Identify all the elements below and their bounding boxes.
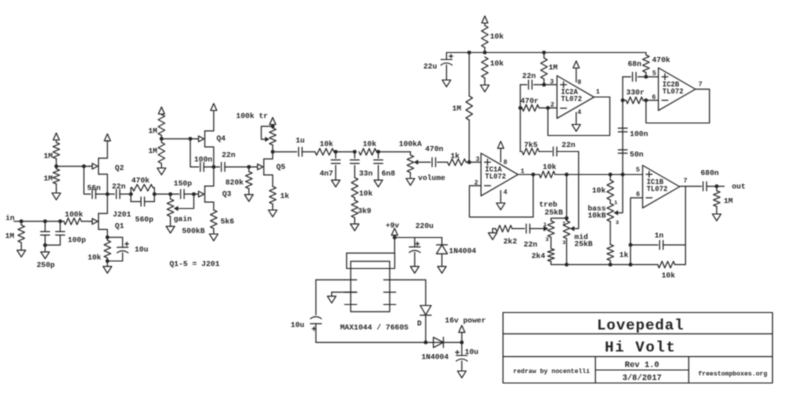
wiper arrow trimpot (265, 137, 270, 142)
label +9v (386, 222, 400, 230)
svg-text:10k: 10k (359, 190, 373, 198)
label 1u (296, 138, 306, 146)
wire IC1A feedback (469, 175, 533, 218)
label out (732, 183, 746, 191)
label Q2 (115, 165, 125, 173)
resistor 470k (parallel) (131, 184, 155, 201)
svg-text:100n: 100n (194, 156, 213, 164)
label 100k (65, 211, 84, 219)
label 100n (Q4) (194, 156, 213, 164)
label gain (174, 216, 193, 224)
label 100n (630, 131, 649, 139)
ground IC1A pin4 (496, 191, 505, 210)
label 22u (423, 64, 437, 72)
label mid (574, 234, 588, 242)
wire IC2A feedback loop (548, 97, 610, 136)
ground (Q4 divider) (157, 166, 166, 175)
svg-text:1N4004: 1N4004 (421, 354, 449, 362)
node Q4 gate (160, 137, 164, 141)
junction 330r left (621, 98, 625, 102)
capacitor 68n (623, 72, 646, 81)
svg-text:TL072: TL072 (662, 88, 683, 96)
supply arrow (Q4 drain) (211, 104, 217, 111)
ground IC2A pin4 (572, 113, 581, 132)
svg-text:470k: 470k (131, 177, 150, 185)
junction feedback bottom (629, 263, 633, 267)
supply arrow +9v (392, 228, 398, 237)
svg-text:10k: 10k (592, 188, 606, 196)
svg-text:5: 5 (652, 70, 656, 77)
trimpot 100k (269, 126, 276, 152)
svg-text:10k: 10k (88, 254, 102, 262)
capacitor 100p (45, 221, 65, 245)
ground (10k divider) (481, 78, 490, 92)
label 470k (IC2B) (652, 57, 671, 65)
supply arrow (Q4 bias divider) (158, 107, 164, 115)
node Q2 source / line (106, 192, 110, 196)
svg-text:10u: 10u (465, 349, 479, 357)
pin tick right 3 (384, 291, 396, 293)
svg-text:Q1: Q1 (115, 223, 125, 231)
resistor 1M (Q2 bias lower) (53, 166, 60, 190)
svg-text:22n: 22n (222, 152, 236, 160)
junction rail/1M IC2A (542, 51, 546, 55)
svg-text:Rev 1.0: Rev 1.0 (625, 361, 659, 370)
resistor 100k (input) (64, 218, 90, 225)
wire to mid pot wiper (574, 152, 579, 229)
svg-text:680n: 680n (701, 170, 720, 178)
pin number 8 (IC2A) (577, 79, 581, 86)
svg-text:7k5: 7k5 (524, 142, 538, 150)
supply arrow IC2A pin8 (573, 61, 579, 82)
svg-text:500kB: 500kB (182, 228, 205, 236)
label 3k9 (358, 208, 372, 216)
wire +9v rail (395, 237, 442, 239)
capacitor 22n (Q2 out) (107, 190, 130, 199)
svg-text:820k: 820k (225, 179, 244, 187)
ground (gain pot) (166, 222, 175, 233)
label 1N4004 (shunt) (449, 248, 477, 256)
svg-text:250p: 250p (37, 262, 56, 270)
svg-text:3/8/2017: 3/8/2017 (622, 373, 661, 383)
pin tick left 2 (345, 279, 357, 281)
node Q5 gate (247, 165, 251, 169)
ground (1N4004 shunt) (438, 262, 447, 273)
svg-text:3: 3 (476, 156, 480, 163)
svg-text:10kB: 10kB (588, 213, 607, 221)
potentiometer treb 25kB (548, 221, 555, 249)
op-amp IC1B (643, 165, 680, 208)
svg-text:1M: 1M (452, 106, 462, 114)
node Q1 source (106, 235, 110, 239)
resistor 2k4 (548, 249, 555, 265)
capacitor 1n (IC1B feedback) (631, 240, 686, 249)
junction feedback tap (531, 173, 535, 177)
pin number 2 (IC1A) (474, 179, 478, 186)
svg-text:redraw by nocentelli: redraw by nocentelli (513, 368, 590, 375)
junction 250p/100p bottom (43, 243, 47, 247)
junction 470r branch (518, 106, 522, 110)
op-amp IC2B (658, 68, 695, 111)
junction 1n tap (629, 243, 633, 247)
resistor 1k (bass lower) (607, 245, 614, 265)
svg-text:2k2: 2k2 (503, 238, 517, 246)
svg-text:25kB: 25kB (574, 241, 593, 249)
node IC2A +in (542, 83, 546, 87)
resistor 1k (IC1A input) (437, 159, 481, 166)
svg-text:100k tr: 100k tr (236, 113, 268, 121)
label 1k (IC1A input) (450, 153, 460, 161)
label 2k4 (531, 253, 545, 261)
wire Q1 drain to Q2 source (106, 194, 108, 213)
svg-text:TL072: TL072 (647, 186, 668, 194)
svg-text:22n: 22n (522, 73, 536, 81)
svg-text:MAX1044 / 7660S: MAX1044 / 7660S (340, 325, 409, 333)
label 10k (IC1B feedback) (661, 272, 675, 280)
svg-text:3: 3 (545, 236, 549, 243)
supply arrow 16v (459, 325, 465, 342)
resistor 10k (rail to ground) (482, 57, 489, 78)
pin tick right 4 (384, 304, 396, 306)
wire +9v to charge pump (394, 238, 396, 254)
node IC1A +in (467, 160, 471, 164)
label 10u (charge pump) (291, 322, 305, 330)
label treb (539, 201, 558, 209)
resistor 3k9 (351, 198, 358, 220)
svg-text:Lovepedal: Lovepedal (597, 317, 684, 334)
label 100kA (399, 141, 422, 149)
label 10u (Q1) (135, 247, 149, 255)
ground (output 1M) (712, 207, 721, 221)
label 5k6 (221, 218, 235, 226)
resistor 330r (623, 97, 659, 104)
svg-text:560p: 560p (135, 216, 154, 224)
label 1N4004 (series) (421, 354, 449, 362)
title block frame (503, 313, 773, 384)
svg-text:3k9: 3k9 (358, 208, 372, 216)
svg-text:100n: 100n (630, 131, 649, 139)
terminal 3 (bass) (616, 219, 620, 226)
label 10k (Q1 source) (88, 254, 102, 262)
pin number 3 (IC2A) (550, 79, 554, 86)
wire IC1B pin6 (631, 198, 643, 265)
svg-text:treb: treb (539, 201, 558, 209)
resistor 1M (Q4 bias lower) (158, 139, 165, 166)
svg-text:1M: 1M (724, 198, 734, 206)
label 1M (IC1A bias) (452, 106, 462, 114)
wire negative rail (316, 341, 462, 343)
label 33n (359, 170, 373, 178)
wiper arrow bass (614, 210, 619, 215)
label redraw by nocentelli (513, 368, 590, 375)
wire input (14, 220, 64, 222)
wire IC2B output feedback (646, 89, 710, 123)
junction trimpot top (271, 124, 275, 128)
capacitor 220u (electrolytic) (409, 238, 420, 263)
svg-text:22n: 22n (524, 241, 538, 249)
pin number 4 (IC1A) (503, 189, 507, 196)
ground (Q2 divider) (52, 190, 61, 200)
label MAX1044 / 7660S (340, 325, 409, 333)
junction 10k/10u bottom (106, 259, 110, 263)
svg-text:in: in (5, 215, 15, 223)
capacitor 56n (84, 166, 108, 198)
resistor 820k (246, 167, 253, 191)
wiper arrow volume (414, 160, 419, 165)
ground (3k9) (350, 220, 359, 231)
capacitor 100n (vertical net) (618, 128, 627, 132)
ground (820k) (245, 191, 254, 201)
label 10u (16v) (465, 349, 479, 357)
ground (charge pump IC) (327, 292, 336, 303)
wire treb top branch (551, 218, 567, 221)
svg-text:22n: 22n (112, 184, 126, 192)
ground (input 1M) (17, 246, 26, 257)
ground (Q1 source) (103, 261, 112, 273)
pin number 5 (IC2B) (652, 70, 656, 77)
svg-text:50n: 50n (630, 152, 644, 160)
capacitor 6n8 (374, 152, 383, 180)
wire trimpot wiper (261, 126, 272, 139)
wire tone stack bottom (551, 264, 631, 266)
svg-text:100kA: 100kA (399, 141, 422, 149)
IC MAX1044 body (351, 261, 390, 311)
junction bass tap (608, 173, 612, 177)
supply arrow (Q2 bias divider) (53, 133, 59, 143)
resistor 10k (top, to supply) (482, 26, 489, 53)
label 25kB (treb) (545, 209, 564, 217)
svg-text:6: 6 (636, 191, 640, 198)
wire gain wiper (178, 194, 194, 208)
supply arrow +V top (482, 16, 488, 26)
capacitor 1u (273, 147, 315, 156)
label D (417, 320, 422, 328)
svg-text:D: D (417, 320, 422, 328)
junction 4n7 (334, 150, 338, 154)
IC MAX1044 lid (347, 253, 395, 268)
svg-text:volume: volume (418, 175, 446, 183)
wire IC2A output (594, 96, 610, 98)
label Q1-5 = J201 (170, 261, 221, 269)
diode D (420, 306, 431, 343)
wire IC1B output (680, 185, 702, 187)
terminal 1 (bass) (614, 199, 618, 206)
label 1M (Q4 upper) (148, 128, 158, 136)
potentiometer bass 10kB (607, 204, 614, 245)
resistor 2k2 (493, 225, 525, 232)
supply arrow IC1A pin8 (498, 141, 504, 162)
svg-text:7: 7 (698, 81, 702, 88)
svg-text:10u: 10u (291, 322, 305, 330)
resistor 10k (filter 2) (359, 149, 410, 156)
svg-text:25kB: 25kB (545, 209, 564, 217)
pin number 5 (IC1B) (636, 166, 640, 173)
label 2k2 (503, 238, 517, 246)
capacitor 100n (190, 139, 213, 172)
transistor Q1 J201 (90, 213, 108, 237)
capacitor 10u (16v filter, electrolytic) (456, 342, 468, 367)
resistor 470k (IC2B feedback upper) (643, 53, 650, 77)
svg-text:Q4: Q4 (217, 136, 227, 144)
label 10k (lower) (490, 61, 504, 69)
svg-text:22n: 22n (562, 142, 576, 150)
transistor Q3 J201 (194, 167, 214, 210)
svg-text:470n: 470n (425, 146, 444, 154)
resistor 1M (volume to rail) (466, 53, 473, 163)
supply arrow (trimpot) (270, 118, 276, 127)
label 500kB (182, 228, 205, 236)
label 22n (7k5 series) (562, 142, 576, 150)
ground (6n8) (374, 180, 383, 187)
wire bass wiper to node (618, 175, 623, 213)
label 470n (425, 146, 444, 154)
node IC2B +in (644, 75, 648, 79)
svg-text:22u: 22u (423, 64, 437, 72)
svg-text:3: 3 (616, 219, 620, 226)
svg-text:1N4004: 1N4004 (449, 248, 477, 256)
wiper arrow gain (174, 206, 179, 211)
transistor Q2 J201 (90, 141, 108, 195)
pin number 6 (IC2B) (652, 94, 656, 101)
label J201 (Q1) (113, 212, 132, 220)
label bass (588, 206, 607, 214)
junction 470k/560p right (153, 192, 157, 196)
svg-text:Q2: Q2 (115, 165, 125, 173)
label 56n (87, 185, 101, 193)
ground (Q5 source) (268, 206, 277, 217)
resistor 10k (bass upper) (607, 175, 614, 204)
pin number 4 (IC2A) (577, 109, 581, 116)
label 10k (filter 2) (363, 141, 377, 149)
label volume (418, 175, 446, 183)
junction rail/10k (483, 51, 487, 55)
svg-text:16v power: 16v power (445, 318, 486, 326)
resistor 10k (Q1 source) (104, 237, 111, 261)
label 7k5 (524, 142, 538, 150)
label Rev 1.0 (625, 361, 659, 370)
label Q1 (115, 223, 125, 231)
wire chip ground (332, 291, 357, 293)
node gain top (169, 192, 173, 196)
resistor 470r (520, 105, 557, 112)
label 1M (Q4 lower) (148, 148, 158, 156)
svg-text:4: 4 (577, 109, 581, 116)
svg-text:33n: 33n (359, 170, 373, 178)
potentiometer gain 500kB (167, 194, 174, 222)
terminal 1 (mid) (562, 220, 566, 227)
pin tick left 3 (345, 291, 357, 293)
svg-text:1M: 1M (44, 153, 54, 161)
label 10kB (bass) (588, 213, 607, 221)
capacitor 22n (IC2A +in) (520, 80, 544, 89)
svg-text:100k: 100k (65, 211, 84, 219)
label 680n (701, 170, 720, 178)
label 22n (treb input) (524, 241, 538, 249)
capacitor 560p (parallel) (131, 197, 155, 206)
wire to gain node (154, 193, 179, 195)
resistor 1M (Q2 bias upper) (53, 143, 60, 167)
svg-text:1k: 1k (450, 153, 460, 161)
svg-text:1k: 1k (280, 193, 290, 201)
ground (16v filter) (458, 367, 467, 378)
svg-text:1M: 1M (5, 233, 15, 241)
capacitor 250p (41, 221, 50, 245)
potentiometer volume 100kA (407, 152, 414, 175)
resistor 1M (Q4 bias upper) (158, 115, 165, 139)
junction output (715, 184, 719, 188)
svg-text:6n8: 6n8 (382, 170, 396, 178)
svg-text:TL072: TL072 (561, 96, 582, 104)
wire charge pump cap loop (316, 279, 345, 281)
label 1M (output) (724, 198, 734, 206)
ground (22u) (442, 77, 451, 87)
resistor 7k5 (520, 148, 552, 155)
svg-text:1: 1 (521, 168, 525, 175)
svg-text:10k: 10k (320, 141, 334, 149)
capacitor 50n (vertical net) (618, 150, 627, 153)
supply arrow (Q2 drain) (104, 134, 110, 141)
pin number 7 (IC1B) (683, 177, 687, 184)
label 16v power (445, 318, 486, 326)
junction in/1M (19, 219, 23, 223)
label 820k (225, 179, 244, 187)
label in (5, 215, 15, 223)
diode 1N4004 (series boost) (433, 337, 443, 347)
svg-text:Q5: Q5 (276, 164, 286, 172)
svg-text:5: 5 (636, 166, 640, 173)
capacitor 22n (7k5 series) (553, 147, 578, 156)
wire Q2 gate (56, 165, 89, 167)
label 250p (37, 262, 56, 270)
terminal 3 (treb) (545, 236, 549, 243)
label 25kB (mid) (574, 241, 593, 249)
svg-text:out: out (732, 183, 746, 191)
resistor 5k6 (Q3 source) (210, 210, 217, 232)
svg-text:2: 2 (550, 102, 554, 109)
svg-text:470k: 470k (652, 57, 671, 65)
label 1M (input) (5, 233, 15, 241)
capacitor 470n (432, 158, 436, 167)
svg-text:56n: 56n (87, 185, 101, 193)
capacitor 680n (output) (703, 182, 724, 191)
capacitor 33n (350, 152, 359, 178)
ground (Q3 source) (209, 232, 218, 241)
label 10k (top resistor) (490, 34, 504, 42)
node Q2 gate (54, 164, 58, 168)
label 470r (520, 98, 539, 106)
capacitor 22n (Q3 out) (214, 162, 249, 171)
label 1n (654, 233, 664, 241)
wire IC1B output feedback (685, 186, 687, 264)
terminal 1 (treb) (543, 221, 547, 228)
resistor 10k (IC1B feedback) (631, 261, 686, 268)
label Q4 (217, 136, 227, 144)
label 150p (174, 181, 193, 189)
svg-text:J201: J201 (113, 212, 132, 220)
junction treb/mid tap (565, 173, 569, 177)
svg-text:1M: 1M (148, 148, 158, 156)
svg-text:3: 3 (562, 239, 566, 246)
svg-text:4n7: 4n7 (320, 170, 334, 178)
label 22n (Q3 out) (222, 152, 236, 160)
resistor 1k (Q5 source) (269, 186, 276, 206)
label Q5 (276, 164, 286, 172)
label 1k (Q5) (280, 193, 290, 201)
svg-text:1M: 1M (549, 65, 559, 73)
junction IC2B -in (644, 98, 648, 102)
svg-text:1n: 1n (654, 233, 664, 241)
junction diode D bottom (424, 341, 428, 345)
